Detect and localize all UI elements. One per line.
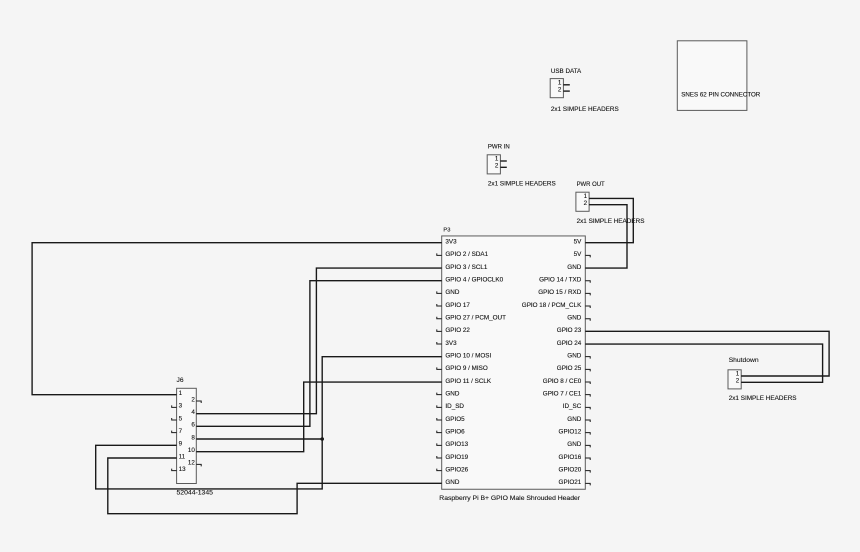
wire SCLK: P3 GPIO 11 to J6 pin 10 <box>196 382 441 452</box>
svg-text:GND: GND <box>567 352 581 359</box>
svg-text:ID_SD: ID_SD <box>445 403 464 410</box>
wire GND: P3 pin 39 around under J6 to J6 pin 11 <box>108 458 442 514</box>
svg-text:3: 3 <box>179 403 183 410</box>
svg-text:2: 2 <box>584 200 588 207</box>
svg-text:GND: GND <box>445 479 459 486</box>
svg-text:52044-1345: 52044-1345 <box>177 490 214 497</box>
connector P3 (Raspberry Pi B+ GPIO Male Shrouded Header) <box>436 227 590 502</box>
svg-text:GPIO16: GPIO16 <box>559 454 582 461</box>
svg-text:GND: GND <box>567 314 581 321</box>
svg-text:GND: GND <box>567 441 581 448</box>
svg-text:PWR IN: PWR IN <box>488 145 510 151</box>
svg-text:GND: GND <box>567 264 581 271</box>
svg-text:5V: 5V <box>574 251 583 258</box>
svg-text:GPIO 7 / CE1: GPIO 7 / CE1 <box>543 390 582 397</box>
svg-text:GPIO 11 / SCLK: GPIO 11 / SCLK <box>445 378 492 385</box>
svg-text:GPIO 22: GPIO 22 <box>445 327 470 334</box>
connector Shutdown (2x1 simple header) <box>728 357 797 402</box>
svg-text:J6: J6 <box>177 377 184 384</box>
svg-text:GPIO6: GPIO6 <box>445 428 465 435</box>
svg-text:GND: GND <box>445 390 459 397</box>
svg-text:6: 6 <box>191 422 195 429</box>
svg-text:12: 12 <box>188 460 195 467</box>
svg-text:8: 8 <box>191 434 195 441</box>
svg-text:GPIO 4 / GPIOCLK0: GPIO 4 / GPIOCLK0 <box>445 277 503 284</box>
svg-text:1: 1 <box>179 390 183 397</box>
svg-text:5V: 5V <box>574 239 583 246</box>
svg-text:2x1 SIMPLE HEADERS: 2x1 SIMPLE HEADERS <box>729 395 797 402</box>
svg-text:GPIO12: GPIO12 <box>559 428 582 435</box>
wire GPIO 23: P3 to Shutdown pin 1 <box>585 331 829 376</box>
svg-text:Raspberry Pi B+ GPIO Male Shro: Raspberry Pi B+ GPIO Male Shrouded Heade… <box>439 495 580 502</box>
svg-text:11: 11 <box>179 453 186 460</box>
svg-text:2: 2 <box>191 396 195 403</box>
svg-text:GPIO13: GPIO13 <box>445 441 468 448</box>
svg-text:USB DATA: USB DATA <box>551 68 582 75</box>
svg-text:10: 10 <box>188 447 195 454</box>
connector PWR OUT (2x1 simple header) <box>576 182 645 225</box>
connector SNES 62 PIN CONNECTOR <box>677 41 760 111</box>
svg-text:GND: GND <box>567 416 581 423</box>
svg-text:GPIO21: GPIO21 <box>559 479 582 486</box>
svg-text:2x1 SIMPLE HEADERS: 2x1 SIMPLE HEADERS <box>488 180 556 187</box>
wire MOSI: P3 GPIO 10 down and around to J6 pin 9 <box>96 357 442 489</box>
svg-text:Shutdown: Shutdown <box>729 357 759 364</box>
svg-text:GPIO 8 / CE0: GPIO 8 / CE0 <box>543 378 582 385</box>
svg-text:2: 2 <box>736 378 740 385</box>
svg-text:GPIO 2 / SDA1: GPIO 2 / SDA1 <box>445 251 488 258</box>
svg-text:SNES 62 PIN CONNECTOR: SNES 62 PIN CONNECTOR <box>681 92 760 99</box>
svg-text:GPIO 27 / PCM_OUT: GPIO 27 / PCM_OUT <box>445 314 506 321</box>
svg-text:2x1 SIMPLE HEADERS: 2x1 SIMPLE HEADERS <box>551 106 619 113</box>
junction at MOSI vertical / pin 8 branch <box>320 437 324 441</box>
svg-text:GND: GND <box>445 289 459 296</box>
svg-text:GPIO 15 / RXD: GPIO 15 / RXD <box>538 289 581 296</box>
wire branch: J6 pin 8 to MOSI vertical <box>196 438 322 440</box>
svg-text:13: 13 <box>179 466 186 473</box>
svg-text:GPIO 17: GPIO 17 <box>445 302 470 309</box>
svg-text:P3: P3 <box>443 227 450 233</box>
svg-text:2: 2 <box>495 163 499 170</box>
svg-text:GPIO5: GPIO5 <box>445 416 465 423</box>
svg-text:PWR OUT: PWR OUT <box>577 182 605 188</box>
wire SCL1: P3 GPIO 3 to J6 pin 4 <box>196 268 441 414</box>
wire 3V3: P3 pin 1 to J6 pin 1 <box>32 243 442 395</box>
svg-text:2: 2 <box>558 86 562 93</box>
svg-text:GPIO20: GPIO20 <box>559 466 582 473</box>
svg-text:3V3: 3V3 <box>445 239 457 246</box>
svg-text:ID_SC: ID_SC <box>563 403 582 410</box>
svg-text:GPIO 3 / SCL1: GPIO 3 / SCL1 <box>445 264 487 271</box>
wire GPIOCLK0: P3 GPIO 4 to J6 pin 6 <box>196 281 441 427</box>
svg-text:GPIO 14 / TXD: GPIO 14 / TXD <box>539 277 582 284</box>
svg-text:4: 4 <box>191 409 195 416</box>
svg-text:3V3: 3V3 <box>445 340 457 347</box>
wire GPIO 24: P3 to Shutdown pin 2 <box>585 344 822 382</box>
svg-text:GPIO 24: GPIO 24 <box>557 340 582 347</box>
svg-text:GPIO26: GPIO26 <box>445 466 468 473</box>
svg-text:GPIO 23: GPIO 23 <box>557 327 582 334</box>
svg-text:GPIO 18 / PCM_CLK: GPIO 18 / PCM_CLK <box>522 302 582 309</box>
connector PWR IN (2x1 simple header) <box>487 145 556 188</box>
svg-text:GPIO 10 / MOSI: GPIO 10 / MOSI <box>445 352 491 359</box>
svg-text:GPIO 25: GPIO 25 <box>557 365 582 372</box>
wire 5V: PWR OUT pin 1 to P3 pin 2 <box>585 198 633 242</box>
wire PWR OUT GND: PWR OUT pin 2 to P3 pin 6 <box>585 205 627 268</box>
connector USB DATA (2x1 simple header) <box>550 68 619 113</box>
svg-text:GPIO19: GPIO19 <box>445 454 468 461</box>
svg-text:5: 5 <box>179 415 183 422</box>
svg-text:GPIO 9 / MISO: GPIO 9 / MISO <box>445 365 487 372</box>
connector J6 (S2044-1345 13-pin header) <box>171 377 213 496</box>
svg-text:2x1 SIMPLE HEADERS: 2x1 SIMPLE HEADERS <box>577 218 645 225</box>
svg-text:7: 7 <box>179 428 183 435</box>
svg-text:9: 9 <box>179 441 183 448</box>
